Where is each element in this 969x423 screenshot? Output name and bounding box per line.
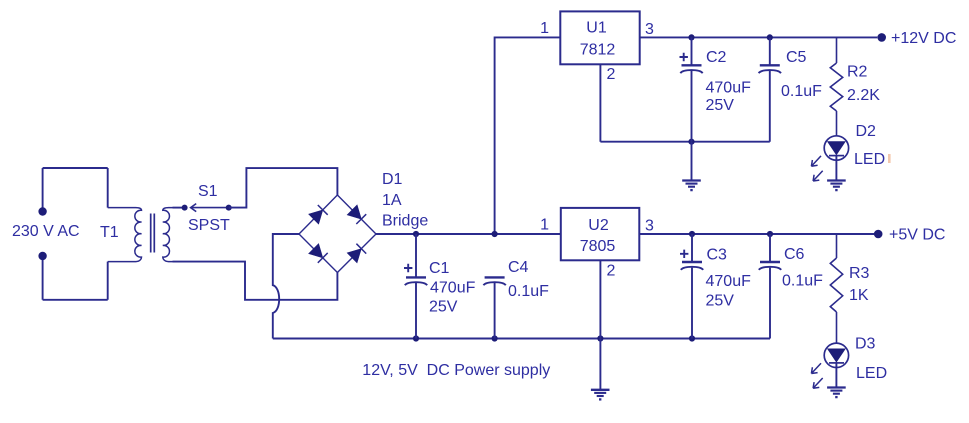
diode lower-left — [309, 244, 323, 258]
capacitor C6 — [759, 234, 781, 339]
wire S1 to bridge top — [229, 168, 338, 208]
regulator U2 box — [561, 208, 640, 260]
svg-text:2.2K: 2.2K — [847, 87, 880, 104]
node dot U2 gnd rail — [597, 335, 603, 341]
svg-text:Bridge: Bridge — [382, 213, 428, 230]
negative rail — [273, 338, 770, 340]
wire secondary top to S1 — [173, 207, 185, 209]
svg-text:C4: C4 — [508, 259, 529, 276]
svg-text:R3: R3 — [849, 265, 870, 282]
svg-text:D2: D2 — [856, 123, 877, 140]
node dot C1 top — [413, 231, 419, 237]
svg-text:R2: R2 — [847, 64, 868, 81]
cursor artifact — [888, 154, 891, 163]
U1 pin2 wire — [599, 64, 601, 141]
ground under C2 — [691, 142, 693, 181]
svg-text:C2: C2 — [706, 49, 727, 66]
switch S1 left contact dot — [182, 205, 188, 211]
svg-text:2: 2 — [607, 263, 616, 280]
capacitor C1 — [404, 234, 427, 339]
node dot riser — [492, 231, 498, 237]
capacitor C5 — [759, 37, 781, 141]
terminal dot top — [38, 207, 46, 215]
svg-text:7812: 7812 — [580, 42, 616, 59]
U2 pin2 wire — [599, 260, 601, 338]
transformer T1 secondary winding — [163, 208, 173, 262]
svg-text:25V: 25V — [429, 299, 458, 316]
svg-text:D1: D1 — [382, 171, 403, 188]
wire riser to U1 pin1 — [495, 37, 561, 234]
svg-text:C6: C6 — [784, 246, 805, 263]
resistor R3 — [830, 234, 842, 343]
transformer core — [151, 214, 155, 253]
+12V terminal dot — [877, 33, 886, 42]
+5V terminal dot — [874, 230, 883, 239]
diode lower-right — [347, 249, 361, 263]
capacitor C4 — [483, 277, 505, 338]
ground under U2 — [591, 390, 610, 400]
LED D3 light arrows — [811, 363, 822, 388]
svg-text:470uF: 470uF — [706, 273, 752, 290]
+12V rail — [640, 36, 878, 38]
svg-text:T1: T1 — [100, 224, 119, 241]
svg-text:LED: LED — [854, 151, 885, 168]
node dot C2 bottom — [688, 139, 694, 145]
svg-text:U2: U2 — [588, 217, 609, 234]
switch S1 right contact dot — [226, 205, 232, 211]
LED D2 light arrows — [811, 156, 822, 181]
svg-text:470uF: 470uF — [430, 280, 476, 297]
node dot C2 top — [688, 34, 694, 40]
node dot C3 top — [689, 231, 695, 237]
svg-text:1: 1 — [540, 20, 549, 37]
svg-text:7805: 7805 — [580, 238, 616, 255]
svg-text:25V: 25V — [706, 97, 735, 114]
svg-text:12V, 5V DC Power supply: 12V, 5V DC Power supply — [362, 362, 550, 379]
svg-text:2: 2 — [607, 66, 616, 83]
diode upper-right — [347, 205, 361, 219]
+5V rail — [639, 233, 874, 235]
svg-text:U1: U1 — [586, 20, 607, 37]
wire bridge output to U2 pin1 — [376, 233, 561, 235]
LED D2 — [824, 136, 848, 160]
node dot C4 bottom — [492, 335, 498, 341]
node dot C1 bottom — [413, 335, 419, 341]
svg-text:1: 1 — [540, 217, 549, 234]
capacitor C2 — [680, 37, 703, 141]
LED D3 — [824, 343, 848, 367]
svg-text:1A: 1A — [382, 192, 402, 209]
node dot C3 bottom — [689, 335, 695, 341]
transformer T1 primary winding — [108, 208, 142, 262]
svg-text:C3: C3 — [707, 247, 728, 264]
svg-text:LED: LED — [856, 365, 887, 382]
capacitor C3 — [680, 234, 703, 339]
svg-text:3: 3 — [645, 21, 654, 38]
U1 ground return wire — [600, 141, 769, 143]
svg-text:0.1uF: 0.1uF — [782, 273, 823, 290]
svg-text:25V: 25V — [706, 293, 735, 310]
svg-text:3: 3 — [645, 218, 654, 235]
wire bridge bottom corner to secondary bottom — [173, 262, 338, 300]
resistor R2 — [830, 37, 842, 135]
svg-text:S1: S1 — [198, 183, 218, 200]
switch S1 blade with arrow — [191, 204, 229, 212]
svg-text:+12V DC: +12V DC — [891, 30, 956, 47]
diode upper-left — [309, 210, 323, 224]
AC source 230V: left loop wire — [43, 168, 108, 300]
svg-text:C1: C1 — [429, 260, 450, 277]
ground under D3 — [827, 388, 846, 398]
U2 ground stem — [599, 339, 601, 390]
terminal dot bottom — [38, 252, 46, 260]
svg-text:C5: C5 — [786, 49, 807, 66]
svg-text:470uF: 470uF — [706, 80, 752, 97]
ground under D2 — [827, 181, 846, 191]
wire bridge left corner to negative rail with hop — [273, 234, 299, 339]
node dot C6 top — [767, 231, 773, 237]
svg-text:+5V DC: +5V DC — [889, 227, 945, 244]
svg-text:230 V AC: 230 V AC — [12, 223, 80, 240]
bridge D1 diamond edges — [299, 195, 376, 273]
svg-text:D3: D3 — [855, 336, 876, 353]
svg-text:1K: 1K — [849, 287, 869, 304]
node dot C5 top — [767, 34, 773, 40]
svg-text:0.1uF: 0.1uF — [508, 283, 549, 300]
svg-text:0.1uF: 0.1uF — [781, 83, 822, 100]
svg-text:SPST: SPST — [188, 217, 230, 234]
regulator U1 box — [560, 11, 639, 64]
